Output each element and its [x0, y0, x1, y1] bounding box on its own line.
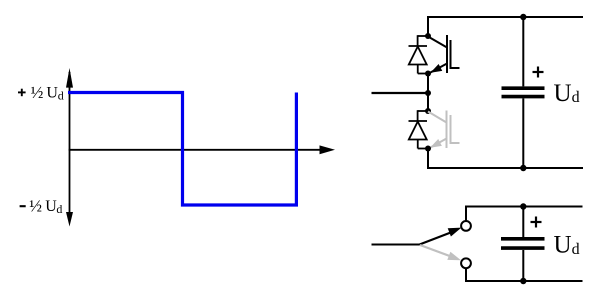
lower throw terminal circle: [461, 258, 471, 268]
wire capacitor C2 to rail: [522, 250, 524, 281]
svg-text:½Ud: ½Ud: [29, 197, 62, 216]
switch arm to lower contact (inactive, greyed): [420, 245, 451, 257]
IGBT Q1 (upper, on): [428, 35, 460, 73]
node top rail capacitor tap: [520, 203, 526, 209]
switch model top rail: [465, 206, 583, 208]
wire rail to capacitor C1: [522, 17, 524, 86]
switch arm upper arrowhead: [448, 228, 462, 237]
wire lower emitter to rail: [427, 149, 429, 170]
IGBT Q2 emitter arrowhead (greyed): [431, 140, 441, 147]
capacitor C1 plates: [502, 88, 545, 96]
top DC+ rail: [427, 16, 583, 18]
diode D2 (lower freewheel): [409, 110, 429, 148]
node DC+ capacitor tap: [520, 14, 526, 20]
node lower collector: [425, 108, 431, 114]
node DC- capacitor tap: [520, 165, 526, 171]
upper throw terminal circle: [461, 221, 471, 231]
switch model bottom rail: [465, 280, 583, 282]
label + 1/2 Ud: [18, 83, 64, 102]
square-wave output voltage trace: [68, 93, 296, 206]
vertical axis bottom arrowhead: [66, 212, 73, 227]
svg-text:½Ud: ½Ud: [31, 83, 64, 102]
node AC midpoint: [425, 90, 431, 96]
svg-text:Ud: Ud: [554, 232, 580, 259]
capacitor C2 plates: [501, 239, 545, 248]
node upper emitter: [425, 71, 431, 77]
horizontal axis arrowhead: [320, 145, 336, 154]
switch arm to upper contact (active): [420, 232, 453, 245]
node upper collector: [425, 33, 431, 39]
IGBT Q1 emitter arrowhead: [432, 65, 442, 72]
diode D1 (upper freewheel): [409, 35, 429, 73]
switch arm lower arrowhead (greyed): [447, 252, 461, 261]
IGBT Q2 (lower, off, greyed): [428, 111, 460, 149]
wire rail to capacitor C2: [522, 207, 524, 238]
svg-text:Ud: Ud: [554, 80, 580, 107]
wire AC output to midpoint: [372, 92, 429, 94]
wire rail to upper collector node: [427, 16, 429, 36]
plus polarity mark C1: [533, 67, 544, 78]
waveform vertical axis: [69, 72, 71, 215]
node bottom rail capacitor tap: [520, 278, 526, 284]
wire lower throw terminal to rail: [465, 268, 467, 282]
wire rail to upper throw terminal: [465, 206, 467, 222]
wire capacitor C1 to rail: [522, 98, 524, 168]
waveform horizontal axis: [69, 149, 320, 151]
wire switch pole input: [372, 244, 420, 246]
plus polarity mark C2: [531, 217, 542, 228]
wire midpoint vertical: [427, 74, 429, 112]
label - 1/2 Ud: [20, 197, 63, 216]
bottom DC- rail: [427, 167, 583, 169]
vertical axis top arrowhead: [66, 68, 73, 88]
node lower emitter: [425, 146, 431, 152]
